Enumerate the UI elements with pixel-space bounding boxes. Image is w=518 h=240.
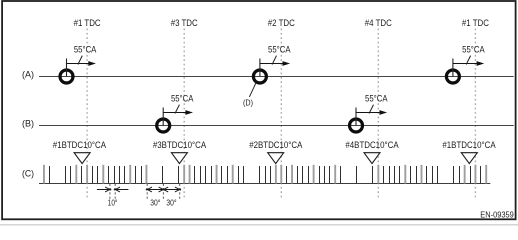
svg-text:#4BTDC10°CA: #4BTDC10°CA [345,140,398,150]
BTDC triangle marker 5 [461,153,477,164]
55CA arrowhead B2 [380,110,388,115]
svg-text:#2 TDC: #2 TDC [268,18,295,28]
vertical mark line B1 [162,108,164,126]
vertical mark line A1 [66,59,68,77]
dimension extension dashed line 2 [114,184,116,199]
cam mark circle A2 [253,70,266,83]
dimension extension dashed line 3 [146,184,148,199]
BTDC triangle marker 3 [268,153,284,164]
svg-text:55°CA: 55°CA [462,45,485,55]
55CA arrowhead A2 [283,61,291,66]
svg-text:(C): (C) [22,169,34,179]
30deg dimension right arrowhead [175,187,181,192]
svg-text:30°: 30° [166,198,176,208]
55CA leader line A3 [466,56,470,65]
cam mark circle B1 [157,119,170,132]
55CA leader line A1 [78,56,82,65]
TDC dotted line #2 [280,29,282,200]
svg-text:55°CA: 55°CA [74,45,97,55]
vertical mark line A2 [259,59,261,77]
55CA arrow shaft A1 [67,63,90,65]
svg-text:#3BTDC10°CA: #3BTDC10°CA [153,140,206,150]
svg-text:#2BTDC10°CA: #2BTDC10°CA [249,140,302,150]
BTDC triangle marker 1 [74,153,90,164]
svg-text:55°CA: 55°CA [171,94,194,104]
vertical mark line B2 [355,108,357,126]
55CA leader line A2 [272,56,276,65]
BTDC triangle marker 2 [171,153,187,164]
55CA arrow shaft B2 [356,112,381,114]
svg-text:(D): (D) [243,97,253,107]
svg-text:EN-09359: EN-09359 [480,210,514,220]
svg-text:(A): (A) [22,70,34,80]
55CA leader line B1 [175,105,179,114]
svg-text:(B): (B) [22,118,34,128]
55CA arrowhead A1 [88,61,96,66]
(D) leader line [249,82,256,97]
TDC dotted line #4 [377,29,379,200]
row A camshaft signal line [39,76,514,78]
svg-text:55°CA: 55°CA [365,94,388,104]
svg-text:#1 TDC: #1 TDC [462,18,489,28]
svg-text:#1BTDC10°CA: #1BTDC10°CA [53,140,106,150]
55CA leader line B2 [369,105,373,114]
55CA arrow shaft B1 [163,112,186,114]
vertical mark line A3 [452,59,454,77]
svg-text:55°CA: 55°CA [268,45,291,55]
55CA arrowhead B1 [185,110,193,115]
svg-text:#4 TDC: #4 TDC [365,18,392,28]
svg-text:#1BTDC10°CA: #1BTDC10°CA [442,140,495,150]
10deg dimension right arrow [115,189,128,191]
10deg dimension left arrow [97,189,110,191]
TDC dotted line #1 [474,29,476,200]
cam mark circle B2 [350,119,363,132]
BTDC triangle marker 4 [364,153,380,164]
55CA arrow shaft A2 [260,63,284,65]
55CA arrow shaft A3 [453,63,478,65]
55CA arrowhead A3 [477,61,485,66]
row B camshaft signal line [39,125,514,127]
cam mark circle A3 [446,70,459,83]
TDC dotted line #3 [183,29,185,200]
dimension extension dashed line 5 [179,184,181,199]
row C crank baseline [39,183,490,185]
TDC dotted line #1 [86,29,88,200]
svg-text:30°: 30° [150,198,160,208]
svg-text:#3 TDC: #3 TDC [171,18,198,28]
cam mark circle A1 [60,70,73,83]
30deg dimension span line [147,189,180,191]
dimension extension dashed line 4 [162,184,164,199]
svg-text:10°: 10° [108,198,118,208]
svg-text:#1 TDC: #1 TDC [74,18,101,28]
dimension extension dashed line 1 [109,184,111,199]
30deg dimension middle arrowheads [159,187,165,192]
crank tooth ticks group [44,165,486,184]
